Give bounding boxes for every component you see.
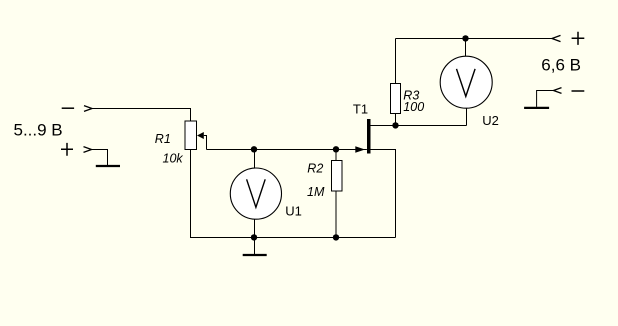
svg-text:U1: U1 bbox=[285, 204, 302, 219]
svg-text:5...9 В: 5...9 В bbox=[14, 121, 63, 140]
svg-text:R2: R2 bbox=[307, 162, 323, 176]
svg-text:6,6 В: 6,6 В bbox=[541, 56, 581, 75]
svg-text:T1: T1 bbox=[353, 102, 368, 117]
svg-text:100: 100 bbox=[403, 100, 424, 114]
svg-text:R1: R1 bbox=[155, 132, 171, 146]
svg-text:1M: 1M bbox=[307, 185, 325, 199]
svg-text:U2: U2 bbox=[482, 113, 499, 128]
svg-text:10k: 10k bbox=[163, 152, 184, 166]
